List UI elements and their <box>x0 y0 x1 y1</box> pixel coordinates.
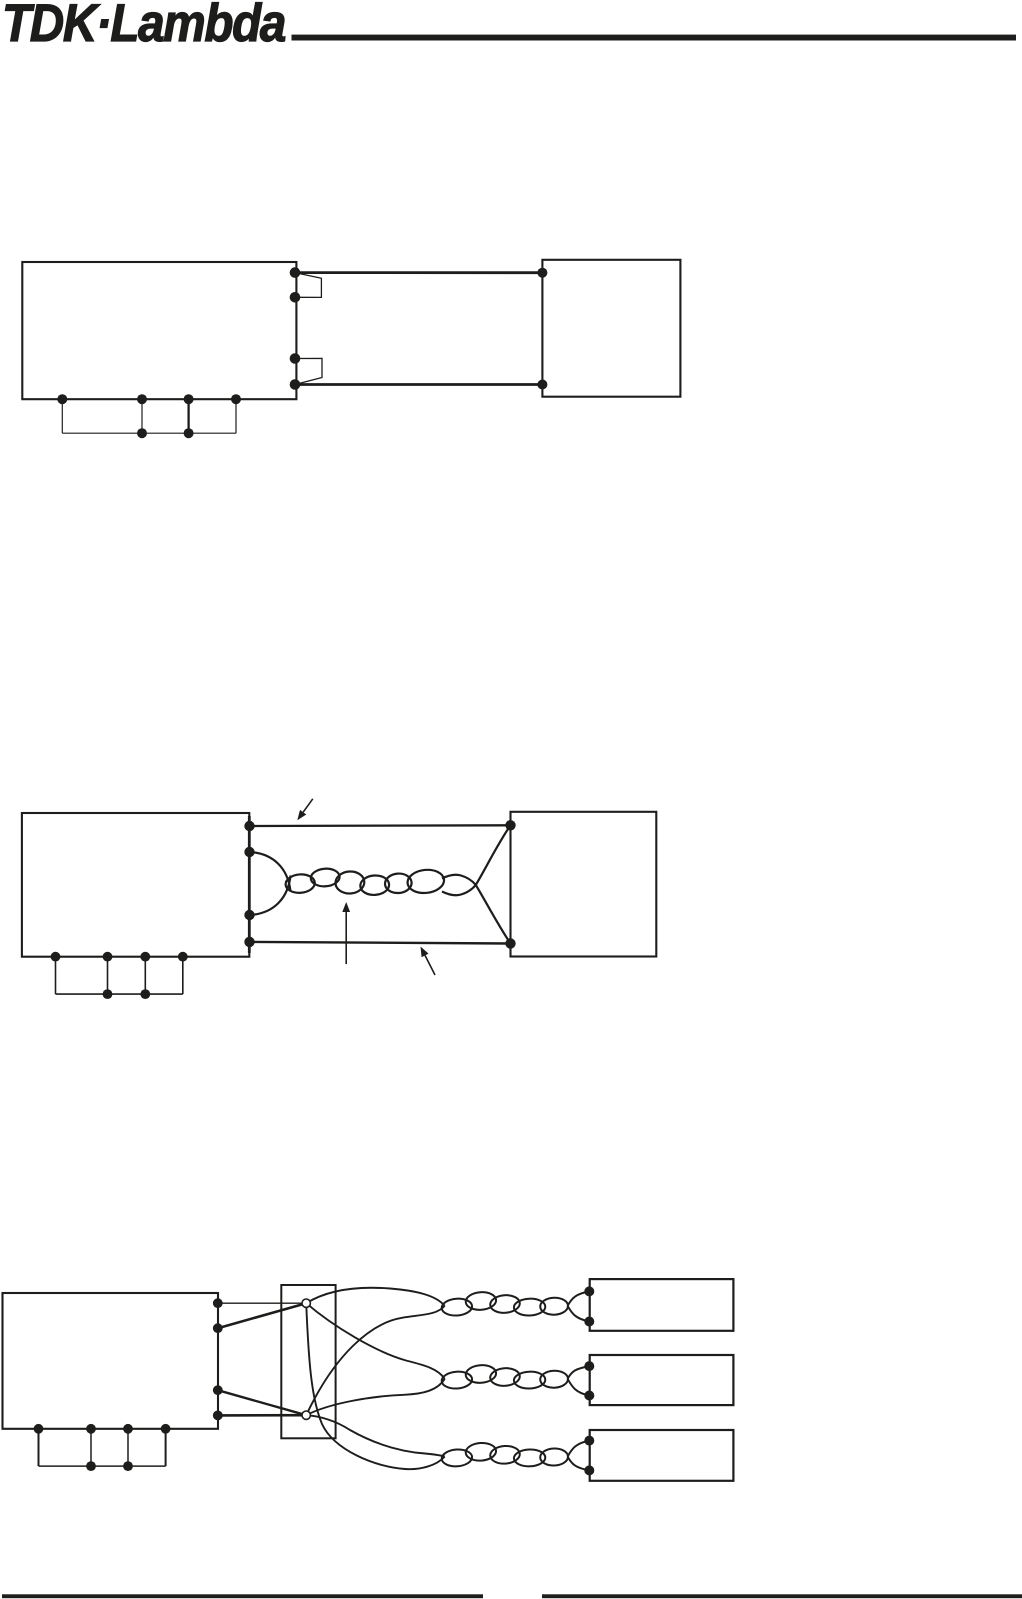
twist loop 4 pair2 (D3) <box>514 1371 546 1389</box>
distribution block outline <box>281 1285 335 1438</box>
terminal A (D2) <box>51 952 61 962</box>
terminal B (D2) <box>103 952 113 962</box>
jumper +S to +V (D1) <box>295 273 321 298</box>
terminal D (D2) <box>178 952 188 962</box>
terminal C (D3) <box>123 1424 133 1434</box>
wire drop C (D2) <box>144 957 146 994</box>
junction C rail (D2) <box>140 989 150 999</box>
wire -V to load (D1) <box>295 383 542 386</box>
terminal +V (D3) <box>213 1323 223 1333</box>
terminal B (D1) <box>137 394 147 404</box>
wire drop D (D2) <box>182 957 184 994</box>
terminal +S (D2) <box>244 847 254 857</box>
wire drop B (D3) <box>90 1429 92 1466</box>
terminal +S (D3) <box>213 1298 223 1308</box>
jumper rail (D3) <box>39 1465 166 1467</box>
twist loop 1 (D2) <box>285 873 315 893</box>
terminal -S (D3) <box>213 1411 223 1421</box>
twist loop 3 (D2) <box>335 871 365 895</box>
twist loop 4 (D2) <box>360 875 390 896</box>
split bottom pair3 (D3) <box>568 1457 590 1471</box>
load a terminal - (D3) <box>584 1317 594 1327</box>
load b terminal - (D3) <box>584 1391 594 1401</box>
load terminal + (D1) <box>537 268 547 278</box>
load terminal - (D1) <box>537 380 547 390</box>
node 1 junction (D3) <box>302 1299 310 1307</box>
load c terminal - (D3) <box>584 1465 594 1475</box>
load c terminal + (D3) <box>584 1436 594 1446</box>
twist loop 4 pair1 (D3) <box>514 1298 546 1316</box>
branch node1 to pair2 (D3) <box>306 1303 445 1379</box>
sense lead -S (D2) <box>250 876 291 916</box>
wire -S to node2 (D3) <box>218 1414 306 1417</box>
branch node2 to pair1 (D3) <box>306 1306 445 1415</box>
sense split to -load (D2) <box>442 875 511 944</box>
footer rule left <box>2 1594 483 1598</box>
wire drop D (D1) <box>235 399 237 433</box>
junction B rail (D1) <box>137 428 147 438</box>
load terminal - (D2) <box>505 938 515 948</box>
node 2 junction (D3) <box>302 1411 310 1419</box>
split bottom pair2 (D3) <box>568 1379 590 1396</box>
wire -V to node2 (D3) <box>218 1390 306 1415</box>
branch node2 to pair3 (D3) <box>306 1415 445 1456</box>
twist loop 6 (D2) <box>406 868 445 895</box>
split top pair1 (D3) <box>568 1291 590 1305</box>
terminal C (D1) <box>184 394 194 404</box>
wire +S to node1 (D3) <box>218 1302 306 1304</box>
twist loop 2 pair3 (D3) <box>465 1442 497 1462</box>
wire +V to load (D2) <box>250 824 511 827</box>
terminal +S (D1) <box>290 292 301 303</box>
twist loop 1 pair1 (D3) <box>441 1298 472 1317</box>
twist loop 2 pair1 (D3) <box>465 1291 497 1311</box>
load a terminal + (D3) <box>584 1286 594 1296</box>
power supply PS3 outline <box>3 1293 219 1429</box>
load terminal + (D2) <box>505 820 515 830</box>
terminal C (D2) <box>140 952 150 962</box>
sense lead +S (D2) <box>250 852 291 892</box>
load b terminal + (D3) <box>584 1361 594 1371</box>
twist loop 4 pair3 (D3) <box>514 1449 546 1467</box>
terminal A (D1) <box>57 394 67 404</box>
junction C rail (D3) <box>123 1461 133 1471</box>
twist loop 3 pair3 (D3) <box>490 1445 521 1465</box>
wire drop D (D3) <box>165 1429 167 1466</box>
terminal A (D3) <box>34 1424 44 1434</box>
junction B rail (D2) <box>103 989 113 999</box>
wire +V to load (D1) <box>295 271 542 274</box>
twist loop 1 pair3 (D3) <box>441 1448 472 1467</box>
twist loop 1 pair2 (D3) <box>441 1371 472 1390</box>
wire drop A (D1) <box>61 399 63 433</box>
arrow to return wire (D2) <box>425 955 435 975</box>
twist loop 3 pair2 (D3) <box>490 1367 521 1387</box>
wire drop C thick (D1) <box>187 399 189 433</box>
jumper rail (D2) <box>56 993 183 995</box>
power supply PS2 outline <box>22 813 249 957</box>
terminal D (D1) <box>231 394 241 404</box>
terminal -V (D1) <box>290 379 301 390</box>
split top pair2 (D3) <box>568 1366 590 1379</box>
jumper -S to -V (D1) <box>295 358 322 384</box>
sense split to +load (D2) <box>442 825 511 895</box>
junction C rail (D1) <box>184 428 194 438</box>
junction B rail (D3) <box>86 1461 96 1471</box>
terminal -V (D2) <box>244 937 254 947</box>
terminal D (D3) <box>161 1424 171 1434</box>
terminal +V (D2) <box>244 821 254 831</box>
wire -V to load (D2) <box>250 942 511 944</box>
twist loop 5 pair2 (D3) <box>540 1370 568 1388</box>
load LOAD3a outline <box>590 1279 734 1331</box>
twist loop 5 (D2) <box>384 873 412 894</box>
load LOAD3b outline <box>590 1355 734 1405</box>
twist loop 2 pair2 (D3) <box>465 1364 497 1384</box>
terminal -S (D1) <box>290 353 301 364</box>
terminal -V (D3) <box>213 1385 223 1395</box>
branch node1 to pair1 (D3) <box>306 1288 445 1306</box>
arrow to load wire (D2) <box>303 799 313 812</box>
arrow to twisted pair (D2) <box>345 912 347 964</box>
split top pair3 (D3) <box>568 1441 590 1457</box>
twist loop 5 pair1 (D3) <box>540 1297 568 1315</box>
load LOAD2 outline <box>511 812 657 957</box>
terminal +V (D1) <box>290 267 301 278</box>
branch node2 to pair2 (D3) <box>306 1379 445 1415</box>
power supply PS1 outline <box>22 262 296 399</box>
jumper rail (D1) <box>62 432 236 434</box>
wire drop C (D3) <box>127 1429 129 1466</box>
wire drop B (D1) <box>141 399 143 433</box>
load LOAD3c outline <box>590 1430 734 1481</box>
split bottom pair1 (D3) <box>568 1306 590 1322</box>
wire drop B (D2) <box>107 957 109 994</box>
header rule <box>292 35 1017 41</box>
wire +V to node1 (D3) <box>218 1303 306 1328</box>
load LOAD1 outline <box>542 260 680 397</box>
PSU right edge emphasis (D2) <box>248 816 251 953</box>
twist loop 2 (D2) <box>310 868 340 888</box>
twist loop 3 pair1 (D3) <box>490 1294 521 1314</box>
footer rule right <box>542 1594 1022 1598</box>
terminal -S (D2) <box>244 910 254 920</box>
terminal B (D3) <box>86 1424 96 1434</box>
svg-text:TDK·Lambda: TDK·Lambda <box>2 0 285 53</box>
wire drop A (D3) <box>38 1429 40 1466</box>
wire drop A (D2) <box>55 957 57 994</box>
twist loop 5 pair3 (D3) <box>540 1448 568 1466</box>
branch node1 to pair3 (D3) <box>306 1303 445 1469</box>
